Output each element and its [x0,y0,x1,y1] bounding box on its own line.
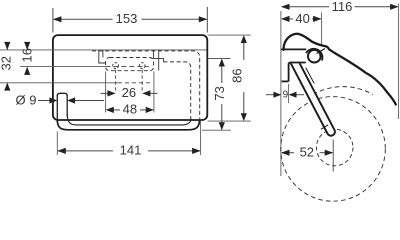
cover underside edge [317,49,326,54]
svg-text:141: 141 [120,143,142,158]
svg-text:32: 32 [0,56,14,70]
dimension 86 [241,35,247,121]
extension line 40 right [321,13,323,46]
extension lines 141 [56,132,58,156]
extension line 116 right [398,4,400,120]
arm top mask [289,50,310,63]
svg-text:40: 40 [295,11,309,26]
mounting slot dashed rect [106,58,154,71]
svg-text:86: 86 [229,68,244,82]
hinge seat arc [306,49,322,61]
roll bar inner [67,114,191,125]
dimension Ø9 [38,97,104,103]
bracket left edge [99,50,106,63]
dimension 48 [106,107,154,113]
dimension 16 left [24,42,30,75]
svg-text:153: 153 [116,11,138,26]
roll circle dashed (big) [281,97,386,202]
dimension 116 [281,4,399,10]
bar left tube [57,93,67,96]
roll core circle dashed (small) [316,129,353,166]
arm seam line [321,125,328,130]
roll bar outer [57,120,199,130]
dimension 153 top [53,7,207,33]
bracket outer right edge [158,50,160,71]
cover plate outline front [53,35,207,120]
screw hole right (dashed circle) [139,63,145,69]
dimension 32 left [4,42,10,91]
wall plate side profile [281,49,306,81]
bracket left inner tick [102,50,104,58]
extension lines 48 [105,72,107,113]
svg-text:26: 26 [122,85,136,100]
hole centerline y=66.5 [20,65,105,67]
extension lines 86 right [208,34,251,36]
svg-text:52: 52 [300,145,314,160]
hinge pin circle [308,50,321,63]
lid bottom edge line y=50 [0,49,207,51]
dimension 40 [281,16,322,22]
dimension 9 side [266,92,304,98]
cover side profile [284,34,396,105]
svg-text:9: 9 [283,90,289,101]
extension line 9 [288,84,290,103]
clearance arc dashed (top) [313,87,373,95]
dimension 52 [281,150,333,156]
wall line [280,11,282,176]
extension line y=82.8 [0,82,118,84]
svg-text:16: 16 [20,48,35,62]
extension lines 73 right [208,58,231,60]
dimension 141 [57,148,200,154]
dimension 26 [101,90,158,96]
dimension 73 [219,59,225,131]
svg-text:48: 48 [123,102,137,117]
screw hole left (dashed circle) [113,63,119,69]
svg-text:Ø 9: Ø 9 [16,92,37,107]
bracket right edge [153,50,163,62]
svg-text:116: 116 [332,0,353,14]
svg-text:73: 73 [212,86,227,100]
roll centre mark [332,140,334,172]
hidden arm outer dashed (right) [92,51,200,119]
hidden arm inner dashed (right) [163,62,190,119]
arm inner edge line [306,68,315,84]
roll arm capsule [295,63,331,132]
extension lines 26 (dashed) [115,70,117,91]
